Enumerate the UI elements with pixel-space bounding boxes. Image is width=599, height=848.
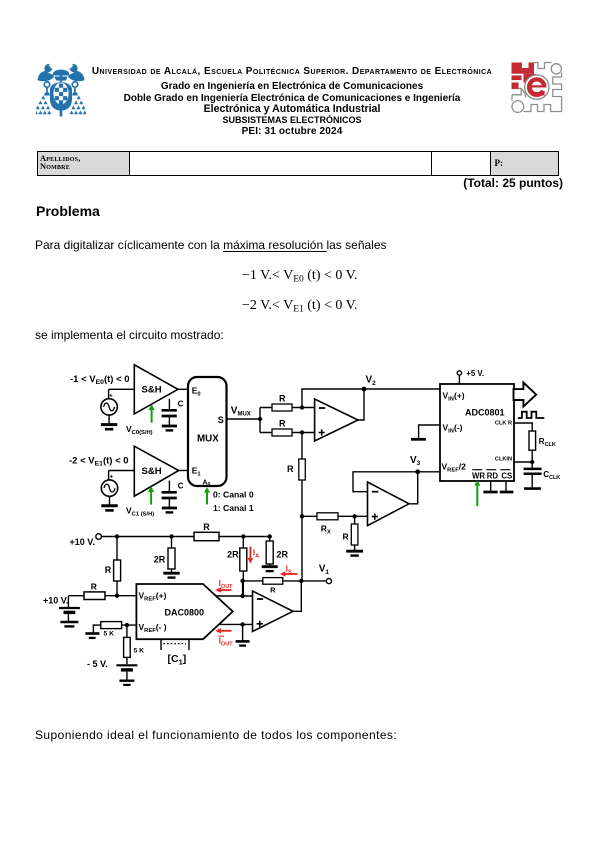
svg-text:RCLK: RCLK — [539, 437, 556, 448]
svg-text:C: C — [178, 400, 184, 409]
svg-text:R: R — [270, 585, 276, 594]
svg-text:WR: WR — [472, 472, 485, 481]
svg-text:R: R — [343, 531, 349, 541]
svg-text:ADC0801: ADC0801 — [465, 408, 505, 418]
svg-text:V2: V2 — [366, 375, 377, 387]
svg-text:R: R — [279, 419, 286, 429]
svg-text:CLKIN: CLKIN — [495, 457, 512, 463]
svg-text:V1: V1 — [319, 564, 330, 576]
svg-text:VC0(S/H): VC0(S/H) — [126, 424, 153, 436]
svg-text:5 K: 5 K — [104, 631, 115, 638]
svg-text:+: + — [109, 474, 113, 481]
svg-text:C: C — [178, 482, 184, 491]
svg-text:CS: CS — [501, 472, 512, 481]
svg-text:DAC0800: DAC0800 — [165, 608, 205, 618]
svg-text:+10 V.: +10 V. — [43, 596, 68, 606]
svg-text:-1 < VE0(t) < 0: -1 < VE0(t) < 0 — [70, 374, 130, 386]
svg-text:IA: IA — [253, 549, 259, 560]
svg-text:+: + — [109, 392, 113, 399]
svg-text:CCLK: CCLK — [543, 470, 560, 481]
svg-text:-2 < VE1(t) < 0: -2 < VE1(t) < 0 — [69, 455, 129, 467]
svg-text:[C1]: [C1] — [168, 653, 187, 666]
svg-text:R: R — [91, 582, 97, 592]
svg-text:S&H: S&H — [142, 466, 162, 477]
svg-text:R: R — [203, 522, 210, 532]
svg-text:VC1 (S/H): VC1 (S/H) — [126, 505, 154, 517]
svg-text:2R: 2R — [227, 550, 239, 560]
svg-text:2R: 2R — [154, 555, 166, 565]
svg-text:S: S — [218, 415, 224, 425]
svg-text:MUX: MUX — [197, 433, 219, 444]
svg-text:IOUT: IOUT — [219, 579, 233, 590]
svg-text:R: R — [105, 565, 112, 575]
svg-text:IOUT: IOUT — [219, 637, 233, 648]
svg-text:CLK R: CLK R — [495, 421, 512, 427]
svg-text:2R: 2R — [277, 550, 289, 560]
svg-text:5 K: 5 K — [134, 648, 145, 655]
svg-text:V3: V3 — [410, 455, 421, 467]
svg-text:+5 V.: +5 V. — [466, 369, 484, 378]
svg-text:RD: RD — [487, 472, 499, 481]
svg-text:R: R — [287, 464, 294, 474]
svg-text:0: Canal 0: 0: Canal 0 — [213, 489, 254, 499]
svg-text:S&H: S&H — [142, 385, 162, 396]
svg-text:VMUX: VMUX — [231, 405, 251, 417]
svg-text:1: Canal 1: 1: Canal 1 — [213, 503, 254, 513]
svg-text:R: R — [279, 394, 286, 404]
svg-text:+10 V.: +10 V. — [70, 537, 95, 547]
svg-text:- 5 V.: - 5 V. — [87, 659, 108, 669]
svg-text:RX: RX — [321, 524, 331, 536]
